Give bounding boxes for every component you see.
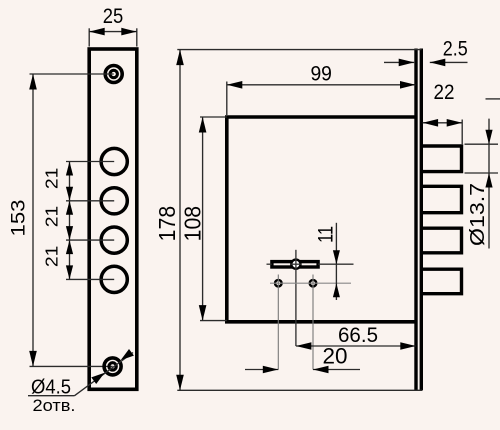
faceplate side view (2.5 thick strip) xyxy=(416,49,421,391)
svg-text:Ø13.7: Ø13.7 xyxy=(467,183,489,246)
top screw hole xyxy=(105,66,122,83)
svg-text:153: 153 xyxy=(7,200,29,237)
dimension 99 xyxy=(227,62,416,116)
leader line for hole callout xyxy=(28,349,134,396)
svg-text:25: 25 xyxy=(103,4,124,28)
dimension 178 xyxy=(154,50,184,391)
key cylinder circle xyxy=(291,260,300,269)
svg-text:Ø4.5: Ø4.5 xyxy=(31,375,71,398)
dimension 22 xyxy=(423,119,463,144)
hole H4 xyxy=(101,266,127,292)
svg-text:21: 21 xyxy=(42,206,62,228)
bolt B4 xyxy=(421,269,461,294)
svg-text:22: 22 xyxy=(434,80,455,104)
svg-text:178: 178 xyxy=(154,206,180,242)
bolt B1 xyxy=(421,146,461,172)
bottom screw hole xyxy=(104,358,121,375)
key horizontal centerline xyxy=(267,263,272,265)
dimension chain 21x3 xyxy=(66,162,73,280)
dimension diameter 13.7 xyxy=(465,99,500,249)
svg-text:21: 21 xyxy=(42,168,62,190)
dimension 20 xyxy=(245,344,360,374)
dimension 11 xyxy=(315,223,340,300)
dimension 108 xyxy=(179,117,226,321)
dimension 2.5 xyxy=(384,37,468,67)
bolt B3 xyxy=(421,228,461,253)
faceplate front view outline xyxy=(89,49,137,389)
centerline top screw xyxy=(30,73,114,75)
hole H3 xyxy=(101,227,127,253)
dimension 25 (faceplate width) xyxy=(89,4,137,47)
svg-text:21: 21 xyxy=(42,246,62,268)
dimension 153 xyxy=(7,74,112,366)
key vertical centerline xyxy=(295,250,297,346)
centerline H4 xyxy=(66,278,114,280)
svg-text:11: 11 xyxy=(315,226,338,243)
svg-text:108: 108 xyxy=(179,206,205,242)
svg-text:2.5: 2.5 xyxy=(443,37,468,61)
key slot plate xyxy=(272,262,318,267)
extension line C2 xyxy=(312,275,314,370)
hole H2 xyxy=(101,188,127,214)
bolt B2 xyxy=(421,186,461,212)
extension line C1 xyxy=(277,275,279,370)
hole H1 xyxy=(101,148,127,174)
svg-text:20: 20 xyxy=(323,344,348,369)
lock body outline xyxy=(227,117,416,322)
centerline H2 xyxy=(66,200,114,202)
leader arrowhead upper right xyxy=(121,349,134,360)
bottom extension line xyxy=(177,389,422,391)
fixing hole C2 xyxy=(310,280,317,287)
fixing hole C1 xyxy=(275,280,282,287)
svg-text:2отв.: 2отв. xyxy=(33,396,76,415)
top extension line xyxy=(177,49,421,51)
dimension 66.5 xyxy=(296,324,416,350)
centerline through fixing holes xyxy=(270,282,351,284)
svg-text:99: 99 xyxy=(310,62,332,86)
centerline H1 xyxy=(66,161,114,163)
centerline H3 xyxy=(66,239,114,241)
